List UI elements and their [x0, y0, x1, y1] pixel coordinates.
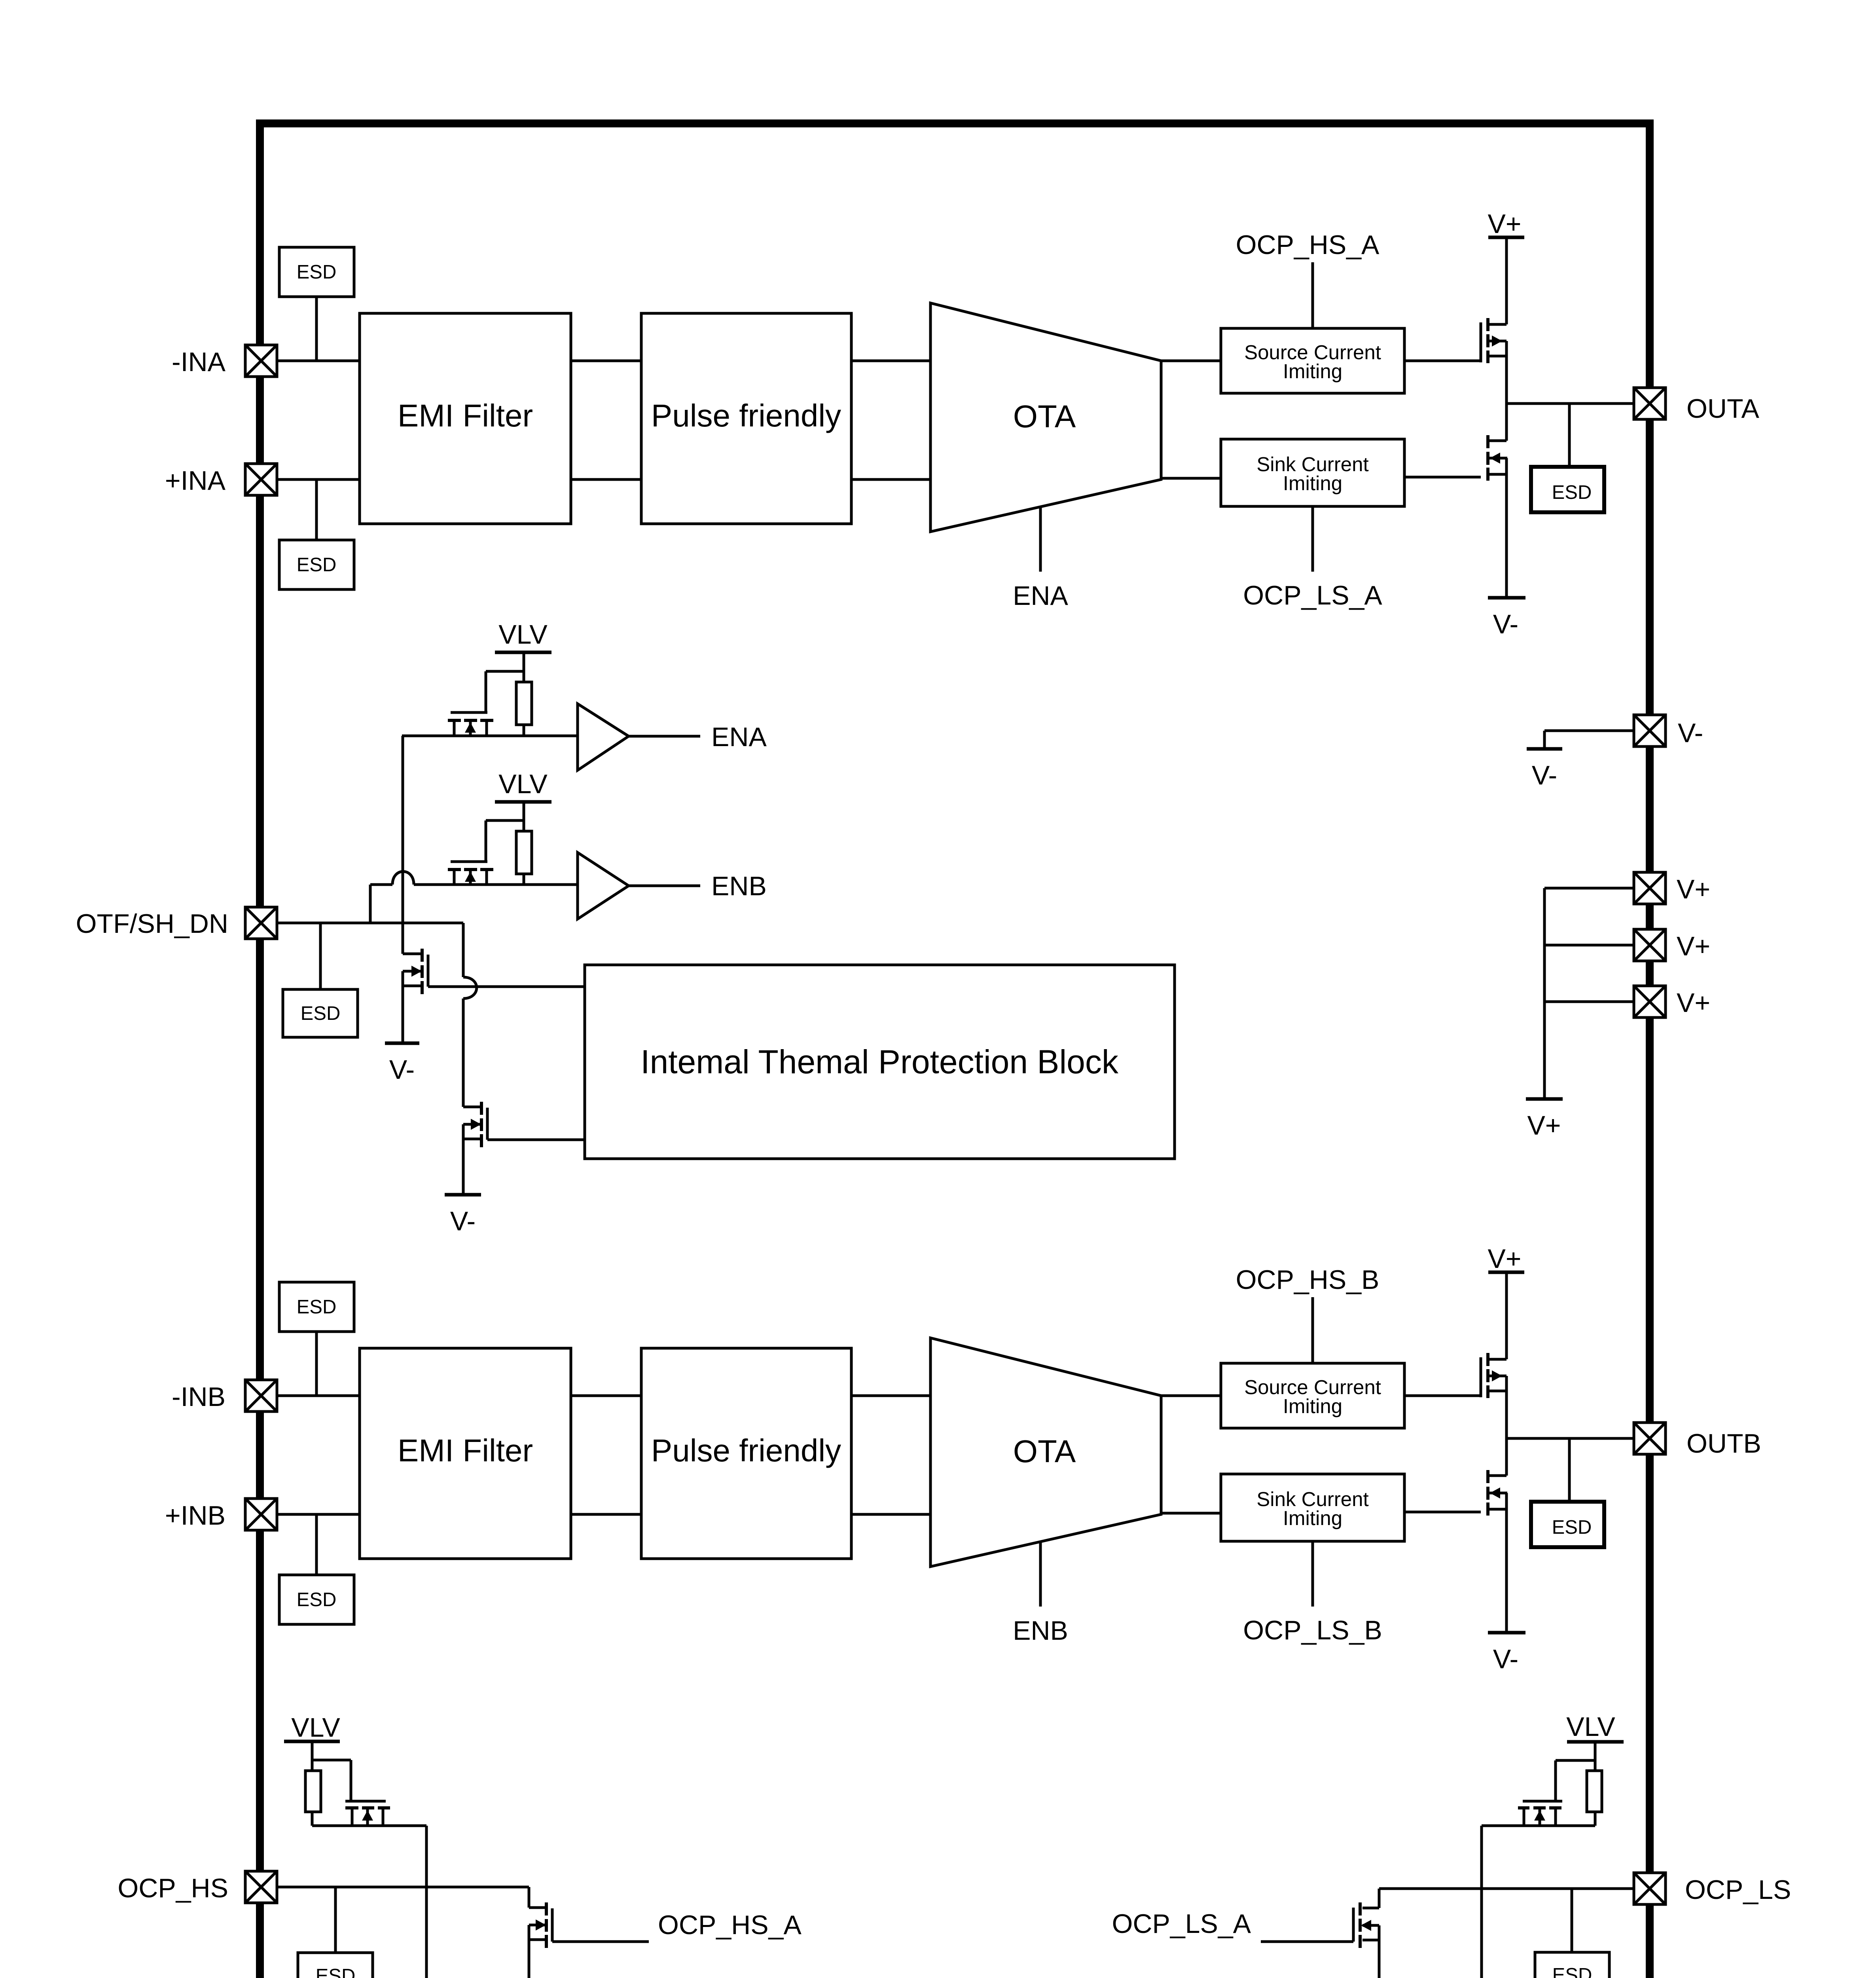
wire OCP_LS_A from Sink box A [1311, 506, 1314, 572]
wire OCP_HS_B to Source box B [1311, 1297, 1314, 1363]
wire Sink box B to NMOS gate [1404, 1511, 1481, 1514]
wire shutdown vertical from ENA rail to M1 [402, 736, 404, 954]
node label OCP_LS_B below Sink box [1243, 1615, 1382, 1645]
wire V+ pin 1 [1544, 887, 1634, 890]
svg-text:Pulse friendly: Pulse friendly [651, 398, 841, 433]
svg-text:ESD: ESD [316, 1965, 356, 1978]
resistor R3 (OCP_HS) [305, 1771, 321, 1826]
svg-text:-INA: -INA [172, 347, 226, 377]
pin OCP_LS [1634, 1873, 1791, 1905]
svg-text:V-: V- [1532, 760, 1557, 790]
power VLV symbol for ENB branch [495, 769, 551, 831]
svg-text:ESD: ESD [301, 1003, 341, 1024]
power V- symbol near V- pin [1527, 749, 1562, 790]
node label OCP_HS_A above Source box [1236, 230, 1380, 260]
svg-text:ENA: ENA [1013, 581, 1068, 611]
power V- symbol below NMOS A [1488, 598, 1525, 639]
op-amp OTA B [930, 1338, 1161, 1567]
node label OCP_LS_A below Sink box [1243, 580, 1382, 610]
svg-text:OUTB: OUTB [1687, 1429, 1761, 1459]
node label ENA [711, 722, 767, 752]
wire Pulse friendly to OTA lower B [851, 1513, 930, 1516]
power V+ symbol below pins [1526, 1099, 1563, 1141]
wire OTA B to Sink Current limiting [1161, 1512, 1221, 1515]
node label ENB under OTA B [1013, 1616, 1068, 1646]
svg-text:ESD: ESD [1552, 482, 1592, 503]
resistor R1 (ENA pull-up) [516, 682, 532, 736]
wire ESD stub at OTF [319, 923, 322, 989]
wire Pulse friendly to OTA upper B [851, 1394, 930, 1397]
ESD box at OCP_LS [1535, 1952, 1609, 1978]
wire ESD to output node B [1568, 1438, 1571, 1500]
wire output node B to OUTB pin [1506, 1437, 1634, 1440]
svg-text:OTF/SH_DN: OTF/SH_DN [76, 909, 228, 939]
power V+ symbol above PMOS B [1488, 1244, 1524, 1359]
Source Current limiting box A [1221, 328, 1404, 393]
svg-text:EMI Filter: EMI Filter [398, 398, 533, 433]
wire Source box B to PMOS gate [1404, 1394, 1481, 1397]
wire ESD A2 to +INA net [315, 479, 318, 540]
wire V+ common vertical [1543, 888, 1546, 1099]
wire EMI to Pulse friendly upper B [571, 1394, 641, 1397]
svg-text:Intemal Themal Protection Bloc: Intemal Themal Protection Block [640, 1043, 1119, 1080]
power VLV symbol OCP_LS [1566, 1712, 1624, 1771]
wire EMI to Pulse friendly lower B [571, 1513, 641, 1516]
wire -INA pin to EMI Filter [277, 360, 360, 362]
wire V+ pin 3 [1544, 1000, 1634, 1003]
svg-text:EMI Filter: EMI Filter [398, 1433, 533, 1468]
wire Q_OCP_HS_A gate to label [552, 1940, 649, 1943]
Pulse friendly block A [641, 313, 851, 524]
wire OCP_HS pin rail [277, 1887, 529, 1908]
svg-text:OCP_HS_A: OCP_HS_A [658, 1910, 802, 1940]
transistor M2 shutdown NMOS [463, 1102, 487, 1195]
svg-text:ENB: ENB [1013, 1616, 1068, 1646]
svg-text:OCP_LS_B: OCP_LS_B [1243, 1615, 1382, 1645]
svg-text:OTA: OTA [1013, 399, 1076, 434]
svg-text:V-: V- [1493, 1644, 1518, 1674]
svg-text:VLV: VLV [498, 620, 548, 650]
wire -INB pin to EMI Filter [277, 1394, 360, 1397]
wire OCP_HS VLV rail [312, 1826, 426, 1978]
transistor PMOS high-side B [1481, 1353, 1506, 1438]
wire OTF pin to right [277, 922, 463, 925]
buffer ENA [578, 704, 629, 770]
svg-text:V-: V- [1493, 609, 1518, 639]
transistor OCP_LS depletion FET [1518, 1801, 1562, 1826]
wire ESD B1 to -INB net [315, 1332, 318, 1396]
transistor PMOS high-side A [1481, 318, 1506, 404]
power V- symbol below NMOS B [1488, 1633, 1525, 1674]
svg-text:V+: V+ [1677, 931, 1710, 961]
svg-text:V-: V- [389, 1055, 415, 1085]
svg-text:Imiting: Imiting [1283, 360, 1342, 383]
svg-text:OCP_LS_A: OCP_LS_A [1112, 1909, 1251, 1939]
svg-text:ENB: ENB [711, 871, 767, 901]
Internal Thermal Protection Block [585, 965, 1175, 1159]
svg-text:OCP_HS_A: OCP_HS_A [1236, 230, 1380, 260]
svg-text:V-: V- [450, 1206, 476, 1236]
svg-text:OUTA: OUTA [1687, 394, 1759, 424]
wire Q_OCP_LS_A gate to label [1261, 1940, 1353, 1943]
wire gate loop of ENA depletion FET [486, 671, 524, 712]
power V- symbol below M1 [385, 1043, 419, 1085]
pin V- [1634, 715, 1703, 748]
wire ENB enable stub of OTA B [1039, 1542, 1042, 1607]
svg-text:ESD: ESD [297, 261, 337, 283]
transistor ENB depletion FET [448, 862, 493, 885]
wire buffer to ENA label [629, 735, 700, 738]
svg-text:ESD: ESD [297, 1589, 337, 1610]
pin -INA [172, 345, 277, 377]
wire M2 gate to thermal block [487, 1139, 585, 1141]
wire OTA B to Source Current limiting [1161, 1394, 1221, 1397]
svg-text:VLV: VLV [498, 769, 548, 799]
wire OCP_LS pin rail [1379, 1889, 1634, 1908]
pin OUTB [1634, 1423, 1761, 1459]
ESD box A1 [279, 247, 354, 297]
svg-text:V+: V+ [1527, 1110, 1561, 1141]
ESD box B1 [279, 1282, 354, 1332]
svg-text:OCP_LS_A: OCP_LS_A [1243, 580, 1382, 610]
svg-text:Pulse friendly: Pulse friendly [651, 1433, 841, 1468]
ESD box at OUTA [1531, 467, 1604, 512]
resistor R4 (OCP_LS) [1587, 1771, 1602, 1826]
wire ESD B2 to +INB net [315, 1514, 318, 1575]
EMI Filter block B [360, 1348, 571, 1559]
wire OTA A to Source Current limiting [1161, 360, 1221, 362]
power VLV symbol OCP_HS [284, 1713, 340, 1771]
wire ENA rail [402, 735, 578, 737]
svg-text:VLV: VLV [1566, 1712, 1615, 1742]
ESD box B2 [279, 1575, 354, 1624]
svg-text:ESD: ESD [297, 554, 337, 576]
node label OCP_HS_A [658, 1910, 802, 1940]
node label OCP_HS_B above Source box [1236, 1265, 1380, 1295]
wire Pulse friendly to OTA upper A [851, 360, 930, 362]
wire gate loop of ENB depletion FET [486, 820, 524, 861]
wire ESD to output node A [1568, 404, 1571, 465]
wire ESD stub at OCP_LS [1571, 1889, 1573, 1952]
wire EMI to Pulse friendly lower A [571, 478, 641, 481]
wire ENB rail with hop over vertical [370, 872, 578, 885]
power V- symbol below M2 [445, 1195, 481, 1236]
transistor M1 shutdown NMOS [403, 949, 428, 1043]
wire ESD A1 to -INA net [315, 297, 318, 361]
svg-text:-INB: -INB [172, 1382, 225, 1412]
node label ENA under OTA A [1013, 581, 1068, 611]
pin OUTA [1634, 388, 1759, 424]
buffer ENB [578, 853, 629, 919]
pin V+ 1 [1634, 872, 1710, 904]
wire OCP_LS VLV rail [1482, 1826, 1595, 1978]
wire OCP_LS_B from Sink box B [1311, 1541, 1314, 1607]
svg-text:Imiting: Imiting [1283, 472, 1342, 494]
svg-text:OCP_HS_B: OCP_HS_B [1236, 1265, 1380, 1295]
svg-text:ENA: ENA [711, 722, 767, 752]
wire M1 gate to thermal block [428, 985, 585, 988]
svg-text:V-: V- [1678, 718, 1703, 748]
svg-text:V+: V+ [1488, 1244, 1521, 1274]
svg-text:V+: V+ [1677, 988, 1710, 1018]
power V+ symbol above PMOS A [1488, 209, 1524, 324]
wire EMI to Pulse friendly upper A [571, 360, 641, 362]
svg-text:VLV: VLV [291, 1713, 340, 1743]
wire buffer to ENB label [629, 885, 700, 887]
resistor R2 (ENB pull-up) [516, 831, 532, 885]
transistor NMOS low-side B [1488, 1438, 1507, 1632]
wire ESD stub at OCP_HS [334, 1887, 337, 1953]
wire +INB pin to EMI Filter [277, 1513, 360, 1516]
svg-text:OCP_HS: OCP_HS [117, 1873, 228, 1903]
EMI Filter block A [360, 313, 571, 524]
svg-text:OTA: OTA [1013, 1434, 1076, 1469]
wire Source box A to PMOS gate [1404, 360, 1481, 362]
power VLV symbol for ENA branch [495, 620, 551, 682]
wire OCP_HS_A to Source box A [1311, 262, 1314, 328]
transistor ENA depletion FET [448, 712, 493, 736]
wire gate loop of OCP_HS depletion FET [312, 1760, 351, 1801]
transistor Q_OCP_HS_A [529, 1902, 552, 1978]
wire Pulse friendly to OTA lower A [851, 478, 930, 481]
Sink Current limiting box A [1221, 439, 1404, 506]
wire OTA A to Sink Current limiting [1161, 477, 1221, 480]
svg-text:ESD: ESD [297, 1296, 337, 1318]
svg-text:ESD: ESD [1552, 1517, 1592, 1538]
svg-text:V+: V+ [1488, 209, 1521, 239]
svg-text:+INA: +INA [165, 466, 226, 496]
op-amp OTA A [930, 303, 1161, 532]
pin +INA [165, 464, 277, 496]
ESD box at OCP_HS [298, 1953, 373, 1978]
transistor OCP_HS depletion FET [345, 1801, 390, 1826]
transistor NMOS low-side A [1488, 404, 1507, 597]
wire output node A to OUTA pin [1506, 402, 1634, 405]
wire V+ pin 2 [1544, 944, 1634, 947]
svg-text:Imiting: Imiting [1283, 1395, 1342, 1417]
svg-text:Imiting: Imiting [1283, 1507, 1342, 1529]
node label ENB [711, 871, 767, 901]
wire Sink box A to NMOS gate [1404, 476, 1481, 479]
svg-text:V+: V+ [1677, 874, 1710, 904]
wire V- pin to V- symbol [1544, 731, 1634, 749]
wire OTF vertical with hop over M1 gate wire [463, 923, 477, 1107]
ESD box at OTF [283, 989, 358, 1037]
transistor Q_OCP_LS_A [1353, 1902, 1379, 1978]
pin OTF/SH_DN [76, 907, 277, 939]
ESD box A2 [279, 540, 354, 589]
pin -INB [172, 1380, 277, 1412]
pin OCP_HS [117, 1871, 277, 1903]
pin V+ 2 [1634, 929, 1710, 961]
Sink Current limiting box B [1221, 1474, 1404, 1541]
wire OTF branch up to ENB rail [369, 885, 372, 923]
Source Current limiting box B [1221, 1363, 1404, 1428]
pin V+ 3 [1634, 986, 1710, 1018]
svg-text:OCP_LS: OCP_LS [1685, 1875, 1791, 1905]
wire gate loop of OCP_LS depletion FET [1556, 1760, 1595, 1801]
outer border frame [260, 123, 1650, 1978]
pin +INB [165, 1499, 277, 1531]
svg-text:+INB: +INB [165, 1501, 225, 1531]
ESD box at OUTB [1531, 1502, 1604, 1547]
wire ENA enable stub of OTA A [1039, 507, 1042, 572]
node label OCP_LS_A [1112, 1909, 1251, 1939]
wire +INA pin to EMI Filter [277, 478, 360, 481]
Pulse friendly block B [641, 1348, 851, 1559]
svg-text:ESD: ESD [1552, 1965, 1592, 1978]
